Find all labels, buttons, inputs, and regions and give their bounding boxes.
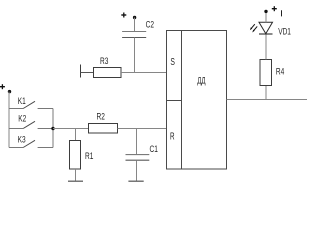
switch K2 <box>9 114 53 129</box>
wire C1 to ground <box>136 160 138 181</box>
wire C1 branch down <box>136 129 138 155</box>
ground under R1 <box>68 180 83 182</box>
switch K3 <box>9 134 53 147</box>
svg-text:R2: R2 <box>97 112 105 122</box>
wire R1 branch down <box>75 129 77 141</box>
svg-text:R3: R3 <box>100 56 109 66</box>
node junction dot at switch rail <box>51 127 54 130</box>
ground under C1 <box>128 180 143 182</box>
svg-text:VD1: VD1 <box>278 26 291 36</box>
svg-text:R4: R4 <box>276 66 285 76</box>
node +U battery terminal (left) <box>0 84 11 93</box>
capacitor C1 <box>126 144 158 160</box>
node +U terminal (top, at C2) <box>121 13 136 20</box>
resistor R1 <box>70 141 94 170</box>
resistor R2 <box>89 112 118 133</box>
wire left rail from + terminal down to K3 <box>8 92 10 148</box>
wire from R2 to block R input <box>118 128 167 130</box>
LED VD1 <box>250 22 291 36</box>
wire LED anode to + terminal <box>265 11 267 22</box>
svg-text:R1: R1 <box>85 151 93 161</box>
wire from junction to R2 <box>53 128 89 130</box>
wire R3 to block S input <box>121 72 167 74</box>
wire tick to R3 <box>81 72 94 74</box>
wire terminal to C2 top plate <box>134 18 136 32</box>
resistor R3 <box>94 56 122 77</box>
switch K1 <box>9 96 53 109</box>
svg-text:C1: C1 <box>150 144 158 154</box>
capacitor C2 <box>122 20 154 38</box>
wire C2 bottom plate down to S wire <box>134 38 136 73</box>
wire R4 top to LED <box>265 34 267 60</box>
resistor R4 <box>260 60 285 86</box>
wire R1 to ground <box>75 169 77 181</box>
svg-text:K2: K2 <box>18 114 26 124</box>
svg-text:ДД: ДД <box>197 75 206 86</box>
flip-flop DD block <box>167 31 227 170</box>
wire block output to right edge <box>227 99 308 101</box>
svg-text:K3: K3 <box>18 134 27 144</box>
node +U terminal (LED supply) <box>264 6 281 16</box>
svg-text:K1: K1 <box>18 96 26 106</box>
svg-text:S: S <box>170 56 175 68</box>
wire switch output rail <box>52 109 54 148</box>
svg-text:C2: C2 <box>146 20 154 30</box>
terminal tick at R3 left <box>80 65 82 78</box>
LED light arrows <box>251 24 255 29</box>
wire R4 bottom to output wire <box>265 86 267 100</box>
svg-text:R: R <box>170 130 175 142</box>
